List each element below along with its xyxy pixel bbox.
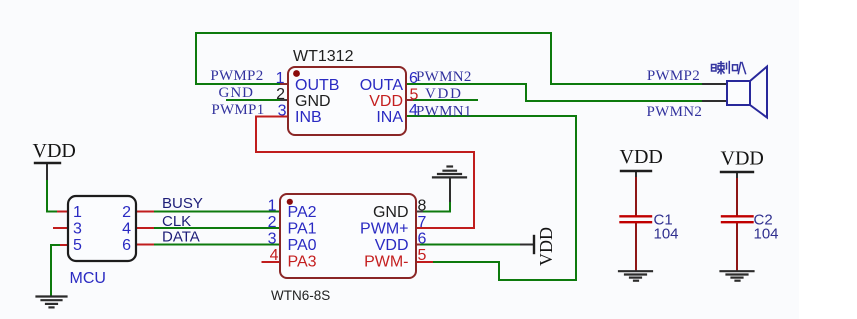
- svg-text:1: 1: [276, 70, 285, 87]
- svg-text:PWMN1: PWMN1: [416, 104, 472, 120]
- svg-text:5: 5: [410, 87, 419, 104]
- svg-text:OUTB: OUTB: [295, 77, 339, 94]
- svg-text:MCU: MCU: [70, 270, 106, 287]
- svg-text:2: 2: [122, 204, 131, 221]
- svg-text:5: 5: [418, 247, 427, 264]
- svg-text:1: 1: [73, 204, 82, 221]
- svg-text:GND: GND: [219, 85, 255, 101]
- svg-text:6: 6: [122, 237, 131, 254]
- svg-text:DATA: DATA: [162, 229, 200, 246]
- svg-text:CLK: CLK: [162, 213, 191, 230]
- svg-text:PWM+: PWM+: [360, 221, 408, 238]
- svg-text:BUSY: BUSY: [162, 195, 203, 212]
- svg-text:OUTA: OUTA: [360, 77, 404, 94]
- svg-text:VDD: VDD: [375, 237, 409, 254]
- svg-text:GND: GND: [373, 204, 409, 221]
- svg-text:WT1312: WT1312: [293, 48, 354, 65]
- svg-text:VDD: VDD: [33, 140, 76, 162]
- svg-text:PWMP1: PWMP1: [211, 102, 264, 118]
- svg-text:PA1: PA1: [288, 221, 317, 238]
- svg-text:GND: GND: [295, 93, 331, 110]
- svg-text:1: 1: [268, 198, 277, 215]
- svg-text:PA3: PA3: [288, 254, 317, 271]
- svg-text:4: 4: [122, 221, 131, 238]
- svg-text:2: 2: [276, 86, 285, 103]
- svg-text:PWMP2: PWMP2: [647, 68, 700, 84]
- svg-text:104: 104: [654, 225, 679, 242]
- svg-text:PA2: PA2: [288, 204, 317, 221]
- svg-text:4: 4: [270, 247, 279, 264]
- svg-text:VDD: VDD: [620, 146, 663, 168]
- svg-text:VDD: VDD: [369, 93, 403, 110]
- svg-text:7: 7: [418, 214, 427, 231]
- svg-text:PA0: PA0: [288, 237, 317, 254]
- svg-text:PWMP2: PWMP2: [210, 68, 263, 84]
- svg-text:PWM-: PWM-: [364, 254, 408, 271]
- svg-text:PWMN2: PWMN2: [647, 104, 703, 120]
- svg-text:INB: INB: [295, 109, 322, 126]
- svg-text:8: 8: [418, 198, 427, 215]
- svg-text:5: 5: [73, 237, 82, 254]
- svg-text:VDD: VDD: [536, 227, 556, 266]
- svg-text:6: 6: [418, 231, 427, 248]
- svg-text:PWMN2: PWMN2: [416, 69, 472, 85]
- svg-text:INA: INA: [376, 109, 403, 126]
- svg-text:VDD: VDD: [721, 148, 764, 170]
- svg-text:3: 3: [268, 231, 277, 248]
- svg-text:3: 3: [73, 221, 82, 238]
- svg-text:2: 2: [268, 214, 277, 231]
- svg-text:WTN6-8S: WTN6-8S: [271, 288, 330, 303]
- svg-text:VDD: VDD: [425, 86, 463, 102]
- svg-text:104: 104: [754, 225, 779, 242]
- svg-text:3: 3: [278, 103, 287, 120]
